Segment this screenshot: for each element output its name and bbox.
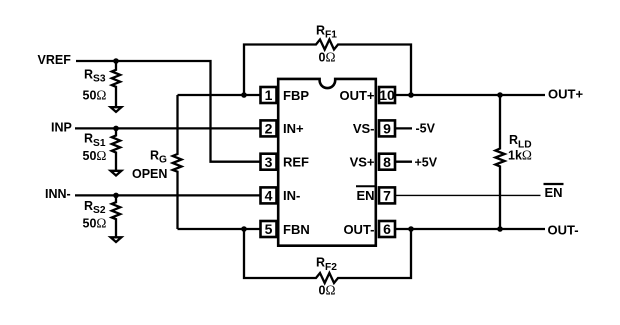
wire FBN line pin5 (178, 228, 261, 230)
svg-text:OUT-: OUT- (548, 223, 579, 238)
resistor RLD vertical (495, 95, 504, 229)
svg-text:+5V: +5V (415, 156, 438, 170)
pin 8 box (379, 154, 395, 170)
value 50ohm RS2 (83, 216, 107, 231)
resistor RF2 loop (244, 229, 411, 283)
wire pin9 stub (396, 127, 413, 129)
svg-text:9: 9 (383, 121, 391, 137)
svg-text:EN: EN (545, 185, 563, 200)
svg-text:VS-: VS- (353, 121, 375, 136)
wire OUT+ line (395, 94, 545, 96)
svg-text:0Ω: 0Ω (319, 282, 336, 297)
label RG (150, 149, 167, 166)
pin 5 box (261, 221, 277, 237)
svg-text:VREF: VREF (38, 53, 72, 67)
label RS3 (84, 67, 106, 84)
wire VREF to REF corner (76, 61, 261, 162)
svg-text:1kΩ: 1kΩ (508, 148, 532, 163)
wire EN line (396, 194, 541, 196)
pin 2 box (261, 120, 277, 136)
svg-text:0Ω: 0Ω (319, 50, 336, 65)
svg-text:IN-: IN- (283, 188, 300, 203)
svg-text:INP: INP (51, 121, 72, 135)
svg-text:OUT+: OUT+ (339, 88, 374, 103)
value 50ohm RS3 (83, 87, 107, 102)
overline for inside EN (356, 185, 375, 187)
resistor RG vertical with zigzag (173, 95, 182, 229)
svg-text:RF2: RF2 (316, 256, 337, 273)
svg-text:5: 5 (265, 221, 273, 237)
wire FBP line pin1 (178, 94, 261, 96)
node junction INP/RS1 (113, 126, 119, 132)
pin 6 box (379, 221, 395, 237)
ground RS2 (111, 237, 122, 242)
value 0ohm RF1 (319, 50, 336, 65)
svg-text:10: 10 (379, 87, 395, 103)
svg-text:50Ω: 50Ω (83, 87, 107, 102)
label RF1 (316, 24, 337, 41)
svg-text:IN+: IN+ (283, 121, 304, 136)
svg-text:50Ω: 50Ω (83, 148, 107, 163)
svg-text:INN-: INN- (45, 187, 71, 201)
svg-text:6: 6 (383, 221, 391, 237)
svg-text:50Ω: 50Ω (83, 216, 107, 231)
pin 9 box (379, 120, 395, 136)
svg-text:RS1: RS1 (84, 132, 106, 149)
node junction VREF/RS3 (113, 58, 119, 64)
label RF2 (316, 256, 337, 273)
op-amp U1 body (278, 79, 376, 246)
wire OUT- line (395, 228, 545, 230)
label RS2 (84, 199, 106, 216)
svg-text:FBP: FBP (283, 88, 309, 103)
ground RS1 (111, 171, 122, 176)
svg-text:FBN: FBN (283, 222, 310, 237)
svg-text:-5V: -5V (416, 122, 436, 136)
node junction OUT+/RLD (497, 92, 503, 98)
svg-text:8: 8 (383, 154, 391, 170)
resistor RS1 (112, 128, 120, 170)
svg-text:7: 7 (383, 188, 391, 204)
node junction INN/RS2 (113, 193, 119, 199)
node junction FBP/RF1 (241, 92, 247, 98)
label RS1 (84, 132, 106, 149)
pin 1 box (261, 87, 277, 103)
node junction OUT-/RF2 (408, 226, 414, 232)
pin 3 box (261, 154, 277, 170)
pin 10 box (379, 87, 395, 103)
pin 7 box (379, 187, 395, 203)
node junction OUT+/RF1 (408, 92, 414, 98)
pin 4 box (261, 187, 277, 203)
wire INN to pin4 (75, 194, 261, 196)
svg-text:RS3: RS3 (84, 67, 106, 84)
label RLD (509, 133, 532, 150)
value 1kohm RLD (508, 148, 532, 163)
value 0ohm RF2 (319, 282, 336, 297)
wire pin8 stub (396, 161, 413, 163)
svg-text:RF1: RF1 (316, 24, 337, 41)
svg-text:2: 2 (265, 121, 273, 137)
node junction OUT-/RLD (497, 226, 503, 232)
wire INP to pin2 (75, 127, 261, 129)
resistor RS3 (112, 61, 120, 106)
svg-text:1: 1 (265, 87, 273, 103)
svg-text:EN: EN (356, 188, 374, 203)
svg-text:OPEN: OPEN (132, 167, 167, 181)
svg-text:4: 4 (265, 188, 273, 204)
resistor RF1 loop (244, 40, 411, 96)
svg-text:REF: REF (283, 155, 309, 170)
overline for outside EN (544, 183, 564, 185)
svg-text:3: 3 (265, 154, 273, 170)
value 50ohm RS1 (83, 148, 107, 163)
svg-text:RG: RG (150, 149, 167, 166)
svg-text:OUT+: OUT+ (548, 87, 583, 102)
svg-text:VS+: VS+ (350, 155, 375, 170)
ground RS3 (111, 107, 122, 112)
svg-text:RS2: RS2 (84, 199, 106, 216)
svg-text:OUT-: OUT- (343, 222, 374, 237)
node junction FBN/RF2 (241, 226, 247, 232)
resistor RS2 (112, 195, 120, 236)
